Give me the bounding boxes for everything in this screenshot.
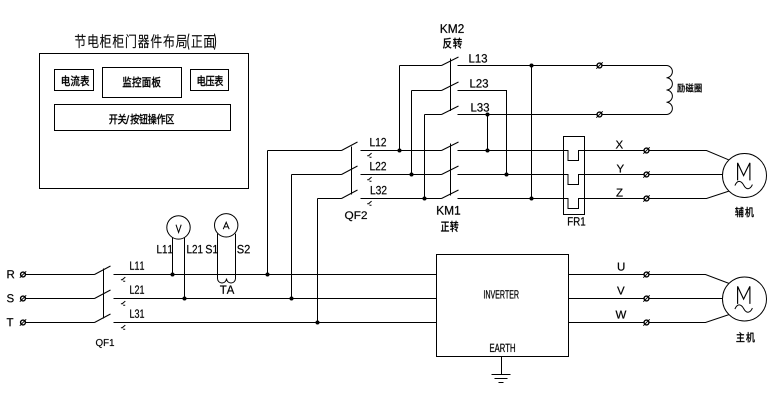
label 辅机 bbox=[735, 207, 743, 217]
terminal Y bbox=[643, 171, 649, 177]
wire L13 bbox=[458, 65, 667, 67]
terminal S bbox=[20, 295, 26, 301]
label U bbox=[618, 263, 625, 271]
break arrow bbox=[367, 177, 371, 181]
label L11 bbox=[130, 262, 144, 270]
wire R input bbox=[26, 274, 95, 276]
break arrow bbox=[121, 277, 125, 281]
wire QF2 row1 in bbox=[268, 150, 342, 152]
wire KM2 riser 3 bbox=[424, 115, 426, 199]
terminal R bbox=[20, 271, 26, 277]
label TA bbox=[220, 286, 234, 294]
label 反转 bbox=[443, 38, 451, 49]
label L31 bbox=[130, 309, 144, 317]
terminal W bbox=[643, 319, 649, 325]
ammeter PA bbox=[215, 214, 238, 237]
label QF2 bbox=[345, 211, 367, 221]
label KM1 bbox=[437, 206, 460, 215]
label 主机 bbox=[736, 332, 744, 342]
wire L31 bbox=[114, 322, 437, 324]
ground bbox=[492, 357, 511, 383]
label W bbox=[616, 311, 627, 319]
wire KM2 row3 in bbox=[425, 114, 442, 116]
label L33 bbox=[471, 103, 489, 111]
voltmeter PV bbox=[167, 216, 190, 239]
label KM2 bbox=[441, 24, 464, 33]
breaker QF1 bbox=[95, 266, 111, 323]
terminal L33 bbox=[596, 111, 602, 117]
wire crossover L33 to row1 bbox=[487, 115, 489, 151]
wire L12 bbox=[361, 150, 442, 152]
wire voltmeter lead L21 bbox=[184, 238, 186, 299]
box 监控面板 (monitor panel) bbox=[103, 68, 182, 98]
label QF1 bbox=[96, 339, 114, 348]
label L23 bbox=[470, 79, 488, 87]
node S bbox=[7, 294, 14, 302]
wire KM2 row2 in bbox=[412, 90, 442, 92]
label S2 bbox=[237, 245, 249, 253]
wire KM2 riser 2 bbox=[411, 91, 413, 175]
wire U bbox=[569, 275, 729, 284]
node R bbox=[7, 270, 14, 278]
wire L32 bbox=[361, 198, 442, 200]
wire T input bbox=[26, 322, 95, 324]
wire crossover L13 to row3 bbox=[531, 66, 533, 199]
wire riser 3 bbox=[317, 199, 319, 323]
wire W bbox=[569, 315, 729, 323]
label FR1 bbox=[568, 217, 585, 225]
box 电流表 (ammeter display) bbox=[55, 70, 94, 91]
wire L33 bbox=[458, 114, 667, 116]
label L21 (meter) bbox=[187, 245, 202, 253]
label V bbox=[617, 287, 625, 295]
label X bbox=[616, 141, 623, 149]
wire V bbox=[569, 298, 723, 300]
label L21 bbox=[130, 285, 144, 293]
break arrow bbox=[367, 201, 371, 205]
label L22 bbox=[370, 162, 386, 170]
wire row1 out / X bbox=[458, 151, 729, 161]
terminal U bbox=[643, 271, 649, 277]
label S1 bbox=[206, 245, 218, 253]
wire L11 bbox=[114, 274, 437, 276]
label 励磁圈 bbox=[677, 83, 701, 92]
label EARTH bbox=[490, 344, 515, 352]
wire riser 2 bbox=[291, 175, 293, 299]
junction bbox=[171, 273, 175, 277]
box 电压表 (voltmeter display) bbox=[191, 70, 229, 91]
label L32 bbox=[371, 186, 387, 194]
CT TA winding bbox=[218, 279, 236, 284]
panel: cabinet door layout box bbox=[40, 54, 249, 189]
label Y bbox=[617, 165, 624, 173]
thermal relay FR1 body bbox=[564, 137, 585, 215]
wire L23 + drop bbox=[458, 91, 507, 175]
inductor 励磁圈 (field coil) bbox=[667, 66, 673, 115]
label L11 (meter) bbox=[157, 245, 172, 253]
terminal Z bbox=[643, 195, 649, 201]
box 开关/按钮操作区 (switch/button area) bbox=[55, 105, 231, 131]
wire row2 out / Y bbox=[458, 175, 723, 185]
terminal L13 bbox=[596, 62, 602, 68]
panel title 节电柜柜门器件布局(正面) bbox=[75, 34, 216, 50]
label INVERTER bbox=[484, 290, 519, 298]
junction bbox=[183, 297, 187, 301]
terminal X bbox=[643, 147, 649, 153]
motor M main 主机 bbox=[723, 277, 767, 321]
terminal T bbox=[20, 319, 26, 325]
CT TA leads bbox=[217, 234, 219, 279]
wire S input bbox=[26, 298, 95, 300]
breaker QF2 bbox=[342, 142, 358, 199]
break arrow bbox=[121, 301, 125, 305]
inverter box bbox=[437, 255, 569, 357]
label L12 bbox=[370, 138, 386, 146]
wire row3 out / Z bbox=[458, 191, 729, 208]
contactor KM1 bbox=[442, 142, 459, 199]
wire QF2 row3 in bbox=[318, 198, 342, 200]
node T bbox=[7, 318, 14, 326]
terminal V bbox=[643, 295, 649, 301]
break arrow bbox=[121, 325, 125, 329]
wire riser 1 bbox=[267, 151, 269, 275]
break arrow bbox=[367, 153, 371, 157]
label L13 bbox=[469, 54, 487, 62]
contactor KM2 bbox=[442, 57, 459, 115]
motor M aux 辅机 bbox=[723, 154, 767, 198]
wire QF2 row2 in bbox=[292, 174, 342, 176]
wire KM2 row1 in bbox=[400, 65, 442, 67]
label Z bbox=[616, 189, 622, 197]
wire L22 bbox=[361, 174, 442, 176]
wire voltmeter lead L11 bbox=[172, 238, 174, 275]
wire KM2 riser 1 bbox=[399, 66, 401, 151]
wire L21 bbox=[114, 298, 437, 300]
label 正转 bbox=[441, 222, 449, 232]
